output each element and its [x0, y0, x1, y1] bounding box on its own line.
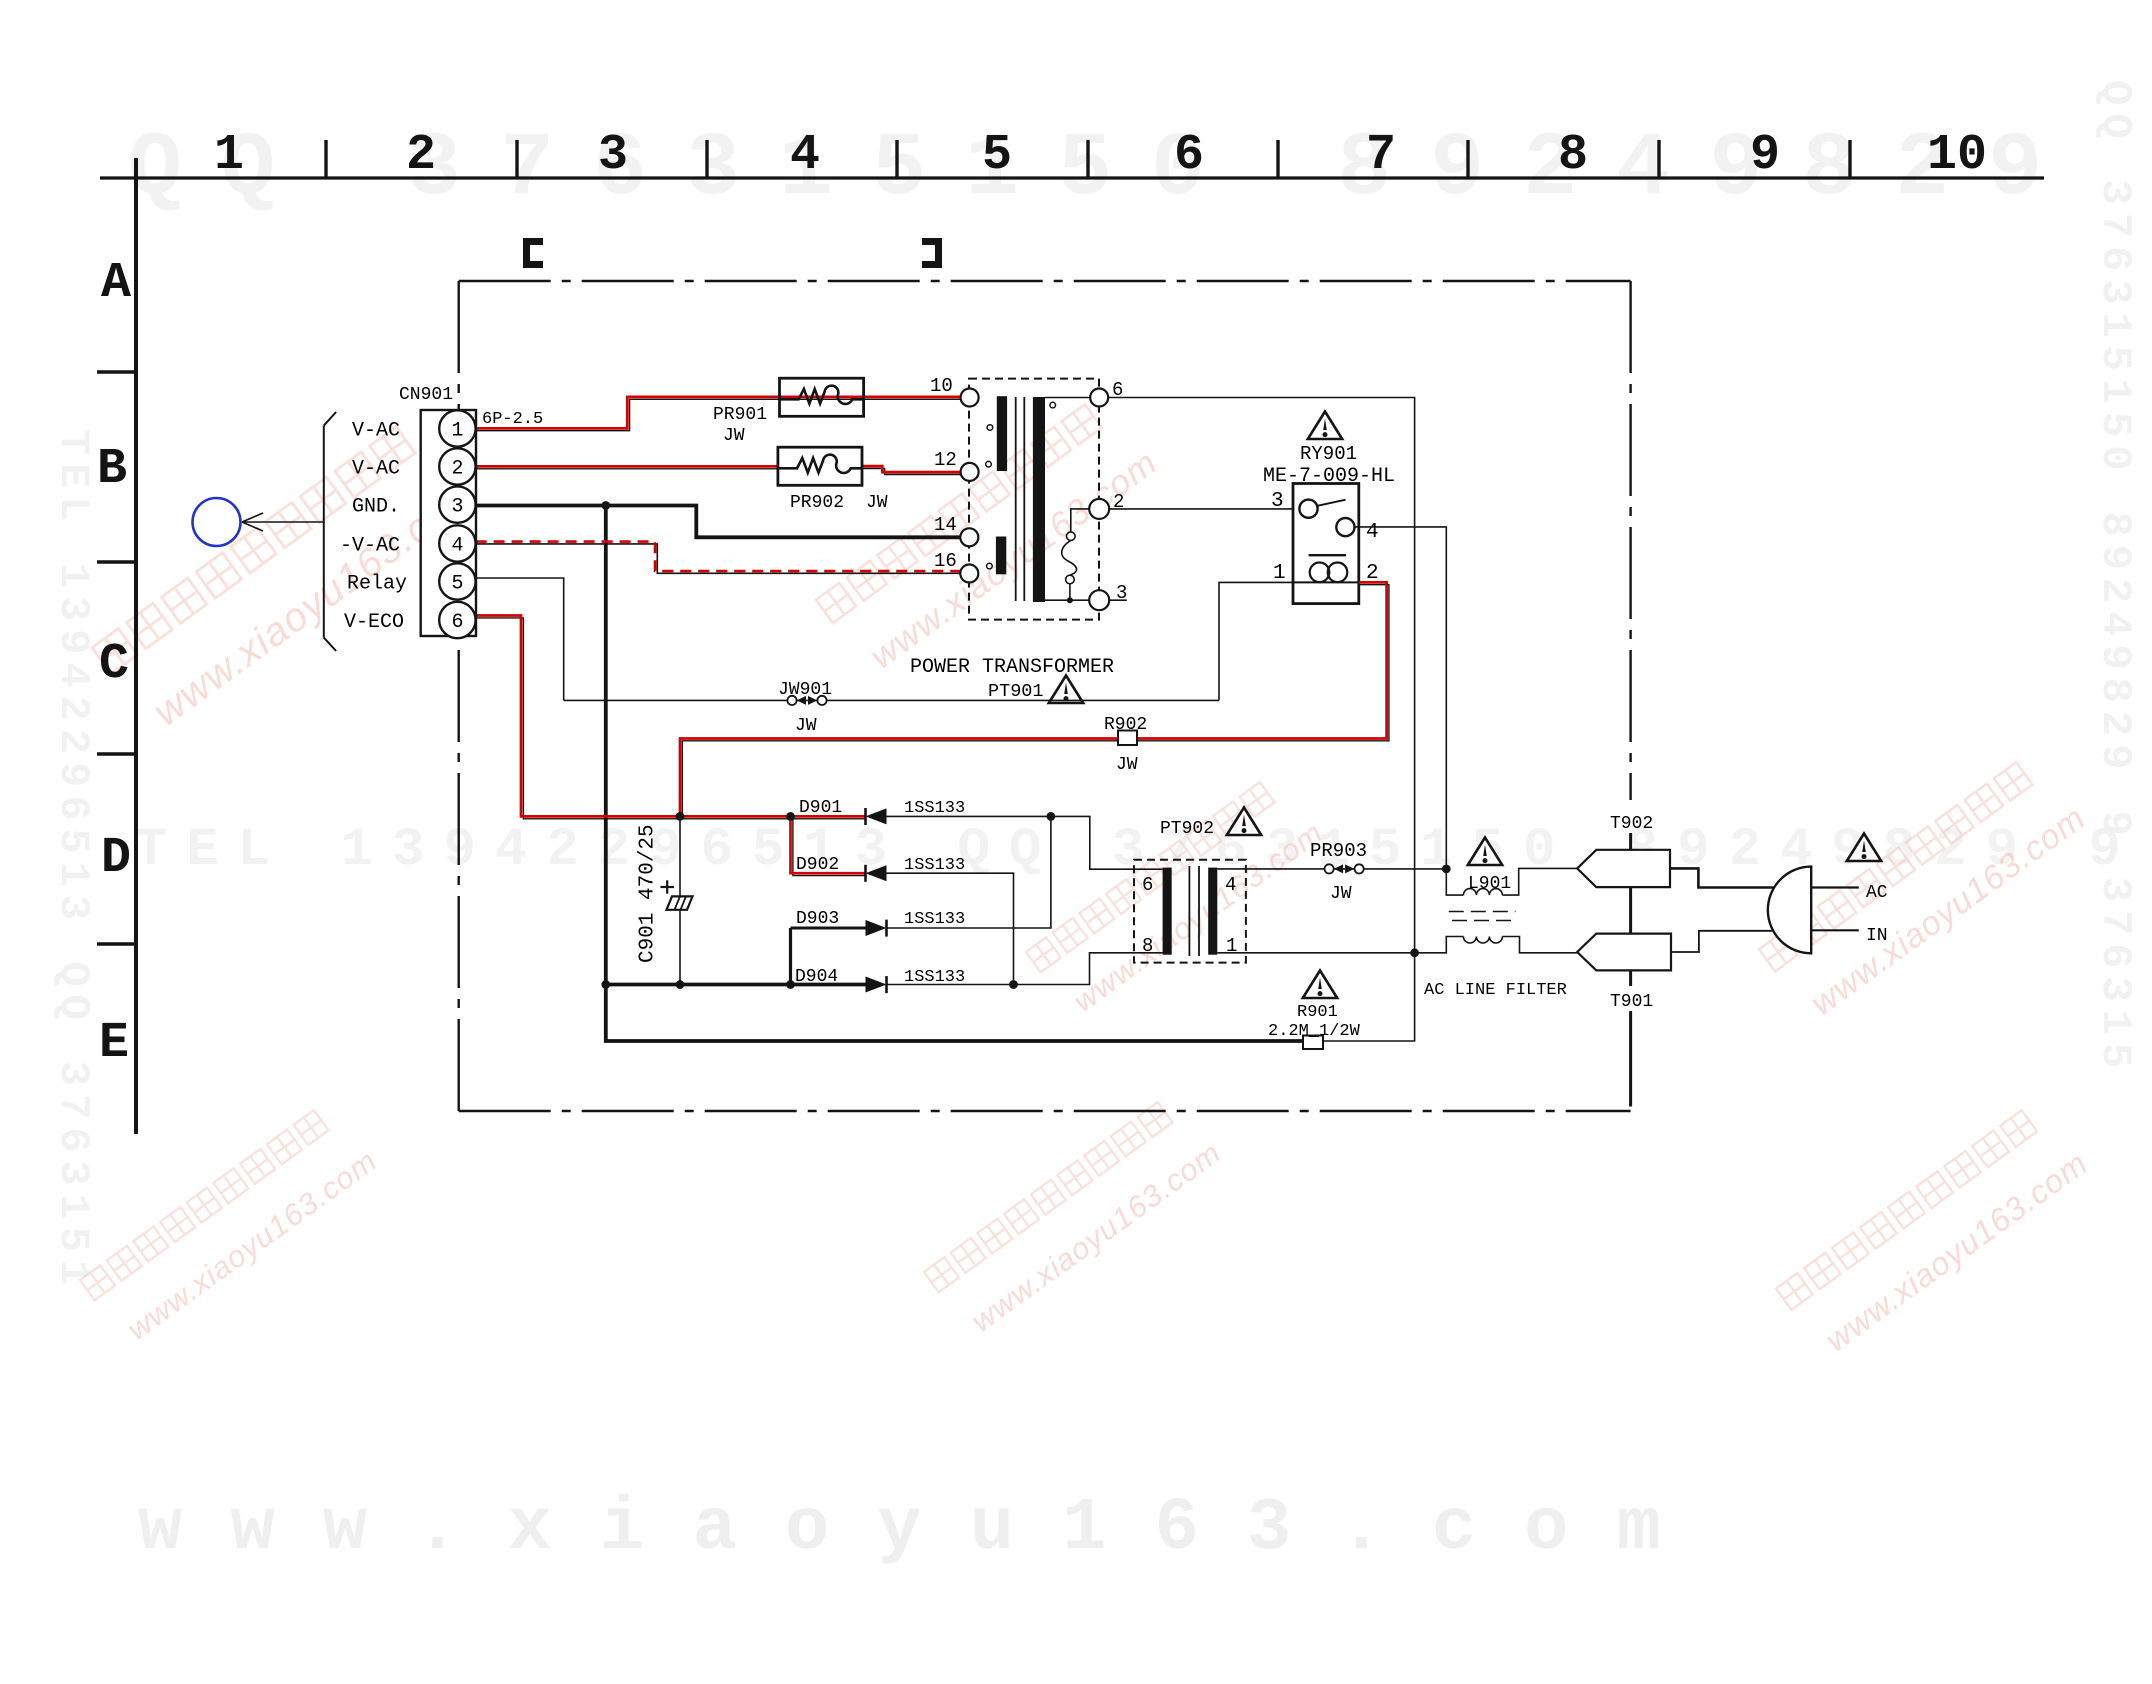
- transformer PT902: [1134, 819, 1246, 963]
- svg-text:4: 4: [790, 127, 820, 184]
- svg-text:PT902: PT902: [1160, 819, 1214, 839]
- wire: pin5 Relay down to JW901 line: [476, 578, 564, 700]
- svg-text:1SS133: 1SS133: [904, 799, 965, 818]
- junction dot C901 top: [676, 812, 685, 821]
- svg-text:10: 10: [930, 375, 953, 397]
- svg-text:D: D: [101, 830, 131, 887]
- warning triangle L901: [1468, 838, 1502, 866]
- PT901 pin 14: [934, 514, 978, 546]
- svg-text:6: 6: [452, 611, 464, 634]
- wire: D903 output up to D901 node: [887, 816, 1051, 928]
- wire: relay pin2 red to R902 line: [680, 582, 1387, 816]
- wire: D903 branch vertical (thick): [789, 928, 792, 985]
- wire: GND vertical + bottom line to R901 (thick): [606, 506, 1303, 1042]
- wire: relay pin4 down to PR903 node: [1354, 527, 1446, 869]
- svg-text:1: 1: [452, 420, 464, 443]
- svg-text:B: B: [97, 441, 127, 498]
- svg-text:IN: IN: [1866, 926, 1888, 946]
- CN901 pin 6: [439, 602, 475, 638]
- relay RY901: [1263, 443, 1395, 604]
- svg-text:AC LINE FILTER: AC LINE FILTER: [1424, 981, 1567, 1000]
- wire: T901 to AC plug: [1671, 931, 1775, 952]
- junction dot rail GND: [601, 980, 610, 989]
- svg-text:JW901: JW901: [778, 680, 832, 700]
- svg-text:CN901: CN901: [399, 385, 453, 405]
- connector T902: [1577, 814, 1670, 887]
- CN901 pin 3: [439, 486, 475, 522]
- wire: D902 red branch (black companion): [793, 816, 866, 875]
- wire: D902 output down to D904 rail: [887, 873, 1014, 984]
- svg-text:JW: JW: [1330, 884, 1352, 904]
- svg-text:3: 3: [1271, 490, 1284, 513]
- svg-text:GND.: GND.: [352, 496, 400, 519]
- svg-text:V-AC: V-AC: [352, 420, 400, 443]
- PT901 pin 10: [930, 375, 979, 407]
- wire: pin2 V-AC to PR902 (black companion): [476, 468, 778, 470]
- wire: pin4 -V-AC to PT901 pin16 (black solid): [476, 544, 961, 573]
- svg-text:14: 14: [934, 514, 957, 536]
- svg-text:JW: JW: [723, 426, 745, 446]
- junction dot PT902 pin1 node: [1410, 948, 1419, 957]
- wire: PT902 pin4 to PR903 to L901 node: [1217, 868, 1446, 870]
- junction dot D901 output: [1047, 812, 1056, 821]
- svg-text:2: 2: [406, 127, 436, 184]
- wire: D902 red branch: [791, 816, 866, 873]
- svg-text:R902: R902: [1104, 715, 1147, 735]
- PT901 pin 6 lead: [1045, 397, 1090, 399]
- svg-text:PR903: PR903: [1310, 840, 1367, 862]
- CN901 pin 5: [439, 563, 475, 599]
- CN901 pin 1: [439, 410, 475, 446]
- svg-text:V-ECO: V-ECO: [344, 611, 404, 634]
- svg-text:C901 470/25: C901 470/25: [637, 824, 660, 963]
- connector T901: [1577, 934, 1671, 1107]
- wire: IN lead: [1811, 929, 1859, 931]
- svg-text:D903: D903: [796, 909, 839, 929]
- junction dot GND pin3: [601, 501, 610, 510]
- svg-text:16: 16: [934, 550, 957, 572]
- wire: pin3 GND thick to PT901 pin14: [476, 506, 961, 538]
- arrow to off-page circle: [242, 513, 324, 531]
- PT901 pin 6: [1090, 379, 1123, 407]
- jumper PR903: [1310, 840, 1367, 904]
- svg-text:4: 4: [452, 535, 464, 558]
- wire: pin2 V-AC red: [476, 465, 778, 468]
- junction dot D902 branch: [786, 812, 795, 821]
- PT901 pin 2: [1089, 491, 1124, 519]
- svg-text:T902: T902: [1610, 814, 1653, 834]
- diode D901 1SS133: [799, 798, 965, 825]
- wire: JW901 net: [564, 699, 1219, 701]
- svg-text:TEL 13942296513 QQ 3763151: TEL 13942296513 QQ 3763151: [49, 430, 97, 1293]
- svg-text:5: 5: [982, 127, 1012, 184]
- PT901 pin 12: [934, 449, 979, 481]
- svg-text:4: 4: [1366, 521, 1379, 544]
- wire: pin6 V-ECO red rail to D901 (black companion): [476, 618, 866, 819]
- svg-text:R901: R901: [1297, 1003, 1338, 1022]
- resistor R901 2.2M 1/2W: [1268, 1003, 1361, 1049]
- junction dot rail D903 branch: [786, 980, 795, 989]
- svg-text:D904: D904: [795, 967, 838, 987]
- svg-text:6: 6: [1142, 874, 1153, 896]
- CN901 pin 4: [439, 525, 475, 561]
- svg-text:QQ 376315150 89249829 9 376315: QQ 376315150 89249829 9 376315: [2091, 80, 2139, 1076]
- svg-text:9: 9: [1750, 127, 1780, 184]
- svg-text:JW: JW: [1116, 755, 1138, 775]
- fusible resistor PR902: [778, 447, 888, 513]
- wire: PT901 pin2 to relay pin3: [1109, 508, 1301, 510]
- wire: C901 vertical: [679, 816, 681, 984]
- wire: D904 output to PT902 pin8: [887, 953, 1163, 985]
- svg-text:6: 6: [1174, 127, 1204, 184]
- wire: PR902 to PT901 pin12 (black companion): [862, 469, 961, 475]
- wire: D901 output to PT902 pin6: [887, 816, 1163, 869]
- wire: PT901 pin6 to right vertical down to R901: [1108, 398, 1414, 1042]
- diode D902 1SS133: [796, 855, 965, 882]
- svg-text:T901: T901: [1610, 992, 1653, 1012]
- svg-text:1: 1: [1273, 562, 1286, 585]
- svg-text:A: A: [101, 255, 131, 312]
- svg-text:2: 2: [452, 458, 464, 481]
- svg-text:-V-AC: -V-AC: [340, 535, 400, 558]
- wire: pin4 -V-AC red dashed overlay: [476, 542, 961, 571]
- jumper JW901: [778, 680, 832, 736]
- PT901 pin 3 lead: [1045, 599, 1127, 601]
- svg-text:E: E: [99, 1015, 129, 1072]
- wire: PR902 to PT901 pin12 red: [862, 466, 961, 472]
- harness brace: [324, 412, 336, 651]
- svg-text:PR901: PR901: [713, 405, 767, 425]
- power transformer PT901: [910, 379, 1114, 702]
- svg-text:4: 4: [1225, 874, 1236, 896]
- svg-text:2.2M_1/2W: 2.2M_1/2W: [1268, 1022, 1361, 1041]
- junction dot rail C901: [676, 980, 685, 989]
- diode D904 1SS133: [795, 967, 965, 993]
- svg-text:www.xiaoyu163.com: www.xiaoyu163.com: [138, 1487, 1709, 1571]
- warning triangle AC plug: [1847, 834, 1881, 862]
- svg-text:JW: JW: [866, 493, 888, 513]
- bracket open: [527, 242, 544, 265]
- svg-text:PT901: PT901: [988, 681, 1044, 702]
- warning triangle RY901: [1308, 412, 1342, 440]
- svg-text:5: 5: [452, 573, 464, 596]
- svg-text:Relay: Relay: [347, 573, 407, 596]
- svg-text:1: 1: [1226, 935, 1237, 957]
- bracket close: [922, 242, 939, 265]
- svg-text:1SS133: 1SS133: [904, 910, 965, 929]
- svg-text:JW: JW: [795, 716, 817, 736]
- wire: relay pin1 to JW901 line: [1219, 582, 1293, 700]
- wire: pin6 V-ECO red rail to D901: [476, 616, 866, 817]
- warning triangle R901: [1303, 971, 1337, 999]
- PT901 pin 2 lead and thermal link: [1062, 509, 1089, 600]
- svg-text:7: 7: [1366, 127, 1396, 184]
- svg-text:8: 8: [1142, 935, 1153, 957]
- svg-text:D901: D901: [799, 798, 842, 818]
- svg-text:12: 12: [934, 449, 957, 471]
- PT901 pin 3: [1089, 582, 1127, 610]
- svg-text:PR902: PR902: [790, 493, 844, 513]
- svg-text:8: 8: [1558, 127, 1588, 184]
- PT901 pin 16: [934, 550, 978, 583]
- fusible resistor PR901: [713, 378, 864, 446]
- AC plug: [1768, 867, 1811, 954]
- connector CN901: [399, 385, 543, 636]
- diode D903 1SS133: [796, 909, 965, 937]
- junction dot PR903 node: [1442, 865, 1451, 874]
- off-page connector circle (blue): [193, 498, 241, 546]
- resistor R902 (JW): [1104, 715, 1147, 775]
- svg-text:2: 2: [1113, 491, 1124, 513]
- capacitor C901 470/25: [637, 824, 693, 963]
- svg-text:POWER TRANSFORMER: POWER TRANSFORMER: [910, 656, 1114, 679]
- svg-text:C: C: [99, 636, 129, 693]
- svg-text:1: 1: [214, 127, 244, 184]
- wire: D904 thick rail: [606, 983, 866, 987]
- svg-text:V-AC: V-AC: [352, 458, 400, 481]
- wire: pin1 V-AC to PR901 to PT901 pin10 (black companion): [476, 399, 961, 430]
- wire: D903 input lead: [791, 927, 866, 930]
- svg-text:L901: L901: [1468, 874, 1511, 894]
- svg-text:10: 10: [1927, 127, 1987, 184]
- svg-text:D902: D902: [796, 855, 839, 875]
- wire: T902 to AC plug: [1670, 868, 1775, 887]
- svg-text:6P-2.5: 6P-2.5: [482, 410, 543, 429]
- warning triangle PT901: [1049, 676, 1083, 704]
- wire: AC lead: [1811, 886, 1859, 888]
- wire: relay pin2 red to R902 line down to C901 node (black companion): [682, 585, 1389, 817]
- CN901 pin 2: [439, 448, 475, 484]
- power block boundary (dash-dot): [459, 281, 1631, 1111]
- svg-text:3: 3: [1116, 582, 1127, 604]
- svg-text:3: 3: [452, 496, 464, 519]
- wire: T902-T901 link: [1629, 887, 1632, 934]
- wire: PT902 pin1 to R901 node: [1217, 952, 1414, 954]
- line filter L901: [1415, 868, 1578, 952]
- junction dot rail D902 output: [1009, 980, 1018, 989]
- svg-text:RY901: RY901: [1300, 443, 1357, 465]
- svg-text:3: 3: [598, 127, 628, 184]
- wire: pin1 V-AC red: [476, 397, 961, 429]
- svg-text:AC: AC: [1866, 883, 1888, 903]
- warning triangle PT902: [1227, 808, 1261, 836]
- svg-text:1SS133: 1SS133: [904, 856, 965, 875]
